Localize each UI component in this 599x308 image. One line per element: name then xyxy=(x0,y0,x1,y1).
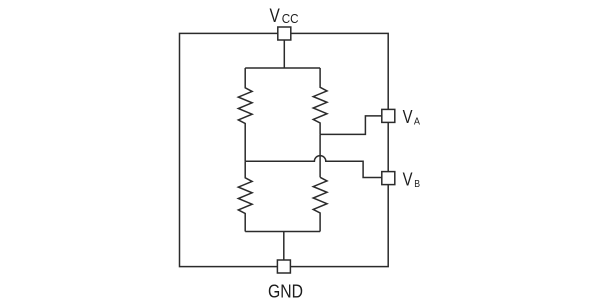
resistor R1 xyxy=(238,68,252,161)
svg-text:V: V xyxy=(403,107,413,127)
svg-text:V: V xyxy=(403,169,413,189)
wire: bottom bus xyxy=(245,231,320,233)
pin GND xyxy=(277,260,290,273)
svg-text:B: B xyxy=(414,178,420,190)
svg-text:CC: CC xyxy=(282,11,299,26)
svg-text:V: V xyxy=(270,6,281,27)
package outline xyxy=(180,33,389,266)
pin VA xyxy=(382,109,395,122)
resistor R4 xyxy=(313,177,327,231)
wire: node B to VB pin (with hop over node A wire) xyxy=(245,156,382,178)
resistor R3 xyxy=(238,161,252,231)
wire: node A to VA pin xyxy=(320,116,382,134)
pin VCC xyxy=(278,27,291,40)
label VA xyxy=(403,107,420,128)
pin VB xyxy=(382,172,395,185)
svg-text:GND: GND xyxy=(268,281,303,302)
svg-text:A: A xyxy=(414,116,420,128)
wire: top bus xyxy=(245,67,320,69)
label VCC xyxy=(270,6,299,27)
wire: GND lead xyxy=(283,232,285,261)
label GND xyxy=(268,281,303,302)
label VB xyxy=(403,169,420,190)
wire: node A vertical (under hop) xyxy=(319,134,321,177)
resistor R2 xyxy=(313,68,327,134)
wire: VCC lead xyxy=(283,40,285,68)
